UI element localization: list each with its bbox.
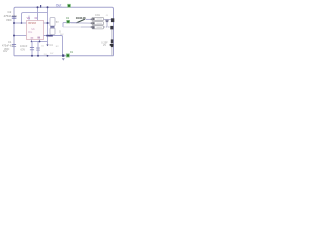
svg-text:2V: 2V — [103, 44, 106, 47]
svg-text:G: G — [59, 31, 61, 34]
svg-text:475nF-630: 475nF-630 — [4, 14, 18, 18]
svg-text:Out: Out — [56, 3, 62, 7]
svg-text:VDC: VDC — [6, 18, 12, 22]
svg-text:C2: C2 — [8, 10, 12, 14]
svg-text:100nF: 100nF — [20, 44, 28, 48]
svg-text:C1: C1 — [8, 40, 12, 44]
svg-text:40V: 40V — [3, 50, 8, 53]
svg-text:CN1: CN1 — [95, 14, 100, 17]
svg-text:Dr: Dr — [35, 17, 38, 20]
svg-text:63V: 63V — [21, 48, 26, 52]
svg-text:5V: 5V — [56, 21, 59, 24]
svg-text:1N4148: 1N4148 — [76, 16, 86, 20]
svg-text:Vin: Vin — [27, 17, 31, 20]
svg-text:BP283: BP283 — [28, 22, 36, 25]
